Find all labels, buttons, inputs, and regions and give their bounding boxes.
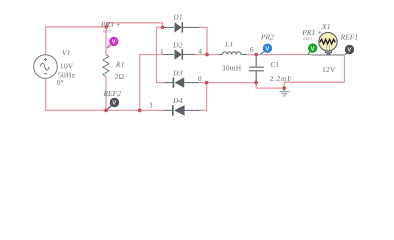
wire jog R1 junction to D1 corner <box>106 23 162 28</box>
diode D4 (points left) <box>163 96 199 116</box>
svg-text:V: V <box>112 40 116 46</box>
svg-text:PR3 +: PR3 + <box>100 20 121 29</box>
svg-text:V: V <box>112 101 116 107</box>
svg-text:V: V <box>311 46 315 52</box>
wire bottom V1 to D4 <box>46 78 163 110</box>
svg-text:REF2: REF2 <box>102 29 112 33</box>
probe REF2 <box>103 89 122 110</box>
svg-text:D3: D3 <box>172 68 183 77</box>
junction dot R1 top <box>104 25 108 29</box>
wire bulb right down to net0 <box>344 55 346 82</box>
probe PR3 <box>100 20 121 48</box>
probe PR2 <box>260 32 274 54</box>
junction dot C1 bottom <box>254 81 258 85</box>
svg-text:R1: R1 <box>115 60 125 69</box>
svg-text:L1: L1 <box>224 39 233 48</box>
svg-text:REF1: REF1 <box>302 37 312 41</box>
svg-text:10V: 10V <box>60 61 74 70</box>
svg-text:2.2mF: 2.2mF <box>270 74 292 83</box>
wire net0 row D3 to C1 <box>199 82 256 84</box>
diode D2 <box>163 40 195 59</box>
svg-text:0: 0 <box>198 74 202 83</box>
svg-text:REF1: REF1 <box>340 33 359 42</box>
svg-text:PR2: PR2 <box>260 32 274 41</box>
wire D2 right to L1 <box>195 54 218 56</box>
svg-text:V: V <box>347 48 351 54</box>
svg-text:30mH: 30mH <box>222 64 242 73</box>
svg-text:6: 6 <box>250 45 254 54</box>
capacitor C1 <box>249 55 264 83</box>
junction dot ground <box>282 86 286 90</box>
svg-text:D4: D4 <box>172 96 183 105</box>
junction dot net0 D4 <box>205 81 209 85</box>
svg-text:3: 3 <box>149 101 153 110</box>
wire V1 top to R1 junction <box>46 27 106 55</box>
lamp X1 leads <box>312 54 345 56</box>
diode D3 (points left) <box>164 68 199 88</box>
junction dot net4 <box>205 53 209 57</box>
svg-text:V1: V1 <box>62 48 71 57</box>
ground <box>279 88 289 96</box>
svg-text:2Ω: 2Ω <box>115 72 125 81</box>
svg-text:1: 1 <box>160 47 164 56</box>
svg-text:C1: C1 <box>270 60 279 69</box>
svg-text:D2: D2 <box>172 40 183 49</box>
wire R1 bottom lead <box>105 76 107 110</box>
junction dot D2 branch bottom <box>138 109 142 113</box>
probe REF1 <box>340 33 359 55</box>
wire D4 right up to net0 <box>199 83 207 111</box>
diode D1 <box>163 13 199 33</box>
junction dot R1 bottom <box>104 109 108 113</box>
svg-text:12V: 12V <box>322 65 336 74</box>
svg-text:D1: D1 <box>172 13 183 22</box>
source V1 <box>34 55 58 79</box>
resistor R1 <box>103 55 109 77</box>
wire R1 top lead <box>105 27 107 55</box>
svg-text:REF2: REF2 <box>103 89 122 98</box>
probe PR1 <box>301 28 322 55</box>
wire net1 vertical D1 junction down to D3 <box>157 27 165 82</box>
svg-text:V: V <box>265 46 269 52</box>
svg-text:4: 4 <box>198 46 202 55</box>
wire D2 left horizontal and down to bottom <box>140 55 163 111</box>
wire L1 right to bulb <box>247 54 312 56</box>
lamp X1 <box>319 22 337 74</box>
svg-text:0°: 0° <box>57 78 64 87</box>
wire net0 dip C1 to ground <box>256 82 344 88</box>
junction dot D1 anode <box>161 26 165 30</box>
svg-text:X1: X1 <box>321 22 331 31</box>
junction dot net6 C1 top <box>254 53 258 57</box>
inductor L1 <box>218 52 246 55</box>
svg-text:PR1 +: PR1 + <box>301 28 322 37</box>
wire D1 cathode right and down to D2 row <box>199 27 207 54</box>
